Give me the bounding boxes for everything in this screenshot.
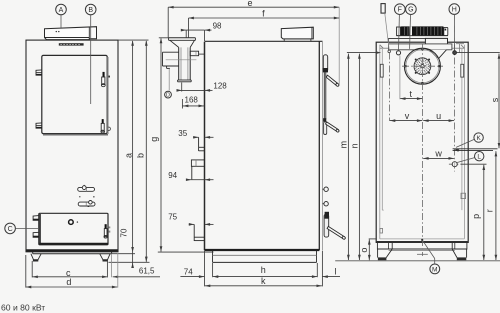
side latch right [461, 64, 464, 77]
lower door C [39, 213, 108, 245]
damper pivot 2 [323, 118, 326, 122]
control panel side [281, 27, 313, 39]
dim m [347, 54, 349, 260]
right wall stub [461, 193, 466, 198]
dim 168 [182, 105, 204, 107]
regulator pill 1 [78, 187, 95, 191]
rear leg left [377, 249, 379, 258]
front face line [322, 41, 324, 250]
boiler body front [26, 40, 118, 252]
latch catch upper [108, 76, 110, 78]
callout K [474, 133, 483, 142]
hinge B top [36, 70, 42, 75]
hub [421, 65, 424, 68]
handle upper side [323, 55, 327, 72]
dim 98 [186, 29, 204, 31]
svg-text:n: n [350, 143, 360, 148]
back wall [204, 42, 206, 251]
lever lower [327, 226, 344, 238]
mount plate [389, 44, 452, 50]
hinge pin 2 [323, 203, 325, 205]
intake disc [414, 58, 431, 75]
hinge pin 1 [323, 188, 325, 190]
svg-text:g: g [149, 137, 159, 142]
grill end cap [444, 27, 448, 35]
dim f [189, 17, 340, 19]
motor rib grill [397, 27, 401, 36]
door C left dark [39, 214, 41, 244]
dim t [400, 98, 422, 100]
svg-text:d: d [66, 277, 71, 287]
svg-text:h: h [261, 265, 266, 275]
svg-text:G: G [408, 7, 413, 14]
flue outlet D [169, 37, 196, 39]
stub 35 [198, 137, 200, 151]
door C knob [69, 220, 74, 225]
arrow 61-5 up [131, 263, 134, 268]
rear box [376, 42, 468, 242]
ring bolts [421, 48, 423, 50]
perforations [414, 58, 430, 74]
bolt H [453, 51, 457, 55]
regulator pill 2 [78, 202, 95, 206]
ext line s left [347, 52, 378, 54]
svg-text:70: 70 [120, 228, 129, 237]
top edge [205, 40, 323, 42]
handle lower side [324, 214, 329, 237]
ext lines hk [204, 251, 206, 287]
bracket left [377, 242, 392, 249]
catch hook lower [108, 127, 110, 130]
svg-text:b: b [136, 153, 146, 158]
svg-text:D: D [166, 93, 170, 99]
mount plate top [388, 37, 425, 39]
callout F [395, 4, 406, 15]
svg-text:e: e [247, 0, 252, 8]
side latch left [380, 64, 383, 77]
pin [388, 50, 391, 53]
bottom band [377, 241, 468, 243]
G leader halo [410, 26, 413, 35]
callout D [165, 91, 172, 98]
svg-text:o: o [359, 248, 369, 253]
ext top right [118, 39, 149, 41]
fan centerline horizontal [402, 65, 443, 67]
callout B [85, 4, 96, 15]
svg-text:u: u [436, 111, 441, 121]
plinth side [212, 250, 214, 262]
fan centerline vertical [421, 44, 423, 256]
svg-text:98: 98 [213, 21, 222, 30]
disc bolts [415, 59, 417, 61]
fan housing side [163, 51, 179, 53]
dim k [205, 285, 322, 287]
ext 128 [181, 83, 183, 92]
svg-text:v: v [405, 111, 410, 121]
outlet flange [425, 38, 447, 46]
dim 128 [182, 89, 205, 91]
ext p [461, 163, 487, 165]
fan axis line [166, 59, 197, 61]
fan ring [406, 50, 439, 83]
bracket right [452, 242, 467, 249]
lever upper [326, 75, 338, 85]
callout H [449, 4, 460, 15]
dim h [213, 276, 317, 278]
panel buttons [56, 31, 57, 32]
damper lever 2 [326, 122, 339, 132]
door C bottom dark [39, 243, 108, 245]
dim u [423, 120, 454, 122]
svg-text:128: 128 [213, 82, 227, 91]
ext line s right [457, 52, 500, 54]
svg-text:p: p [471, 214, 481, 219]
svg-text:H: H [452, 7, 457, 14]
diffuser V [429, 50, 446, 58]
dim c line [32, 276, 107, 278]
svg-text:C: C [8, 226, 13, 233]
dim 35 [193, 136, 198, 138]
L axis horizontal [449, 163, 461, 165]
dim 61-5 ref line [113, 276, 160, 278]
svg-text:r: r [484, 209, 494, 212]
ext 168 [181, 99, 183, 109]
hinge C bottom [33, 232, 39, 237]
dim b [145, 41, 147, 262]
callout L [475, 152, 484, 161]
svg-text:75: 75 [168, 212, 177, 221]
svg-text:m: m [339, 141, 349, 149]
port L [452, 162, 457, 167]
dim v [390, 120, 422, 122]
dim w [423, 157, 454, 159]
svg-text:w: w [434, 149, 442, 159]
liner lines [381, 49, 383, 210]
svg-text:61,5: 61,5 [139, 266, 155, 275]
rail [389, 248, 455, 250]
dim e [168, 6, 339, 8]
svg-text:60 и 80 кВт: 60 и 80 кВт [1, 303, 45, 313]
ext lines c d [31, 261, 33, 277]
ext e right [338, 7, 340, 84]
door B right shadow [107, 57, 109, 134]
ext f [188, 18, 190, 38]
top band [380, 47, 389, 49]
type label strip [59, 43, 84, 45]
dim p [483, 165, 485, 260]
stub 75 [193, 224, 195, 241]
dim r [495, 151, 497, 260]
svg-text:k: k [261, 276, 266, 286]
upper door B [42, 55, 107, 133]
dim 74 [180, 276, 204, 278]
base frame front [32, 252, 34, 254]
handle B lower [102, 119, 104, 123]
right leg [100, 254, 110, 260]
floor line right [335, 260, 500, 262]
door B bottom shadow [43, 134, 108, 136]
ext g bottom [158, 251, 214, 253]
callout M [430, 264, 440, 274]
svg-text:94: 94 [168, 171, 177, 180]
svg-text:s: s [490, 97, 500, 102]
callout A [56, 4, 67, 15]
callout C [5, 223, 16, 234]
svg-text:F: F [398, 7, 402, 14]
dim o [369, 238, 376, 240]
bolt F [396, 51, 400, 55]
ext t [399, 56, 401, 100]
svg-text:l: l [335, 267, 337, 277]
flue pipe [178, 47, 180, 80]
dim d [26, 286, 117, 288]
left wall clip [380, 228, 383, 233]
control panel A [45, 27, 97, 40]
fan scroll outer [404, 48, 440, 84]
svg-text:A: A [59, 7, 64, 14]
svg-text:M: M [432, 266, 438, 273]
dim 75 [189, 223, 194, 225]
svg-text:L: L [477, 154, 481, 161]
svg-text:B: B [88, 7, 93, 14]
latch C [105, 224, 107, 228]
callout G [406, 4, 417, 15]
boiler bottom thick edge [27, 249, 118, 251]
ext g top [159, 37, 169, 39]
handle B upper [103, 72, 105, 77]
dim s [498, 54, 500, 149]
right axis centerline [454, 45, 456, 172]
front wall [318, 41, 320, 250]
ext floor right [109, 261, 150, 263]
corner seam [456, 43, 464, 45]
pipe K [453, 148, 498, 150]
junction box [190, 51, 198, 56]
rear leg right [466, 249, 468, 258]
left axis [389, 53, 391, 122]
svg-text:a: a [123, 153, 133, 158]
svg-text:K: K [476, 135, 481, 142]
svg-text:35: 35 [178, 129, 187, 138]
hinge C top [33, 216, 39, 221]
drain M dot [421, 239, 423, 241]
ext e left [167, 7, 169, 37]
dim l [322, 276, 340, 278]
small dots [79, 196, 80, 197]
svg-text:74: 74 [184, 267, 193, 276]
bottom thick [205, 249, 320, 251]
ext wall up [204, 30, 206, 41]
callout rect [381, 4, 385, 14]
flange 94 [191, 160, 204, 166]
dim n [358, 54, 360, 260]
hinge B bottom [36, 123, 42, 128]
svg-text:168: 168 [185, 95, 199, 104]
grill base [397, 35, 448, 37]
dim a [132, 41, 134, 267]
ext 98 [185, 30, 187, 37]
left leg [31, 254, 41, 260]
ext base right [112, 253, 135, 255]
dim 94 [186, 179, 191, 181]
